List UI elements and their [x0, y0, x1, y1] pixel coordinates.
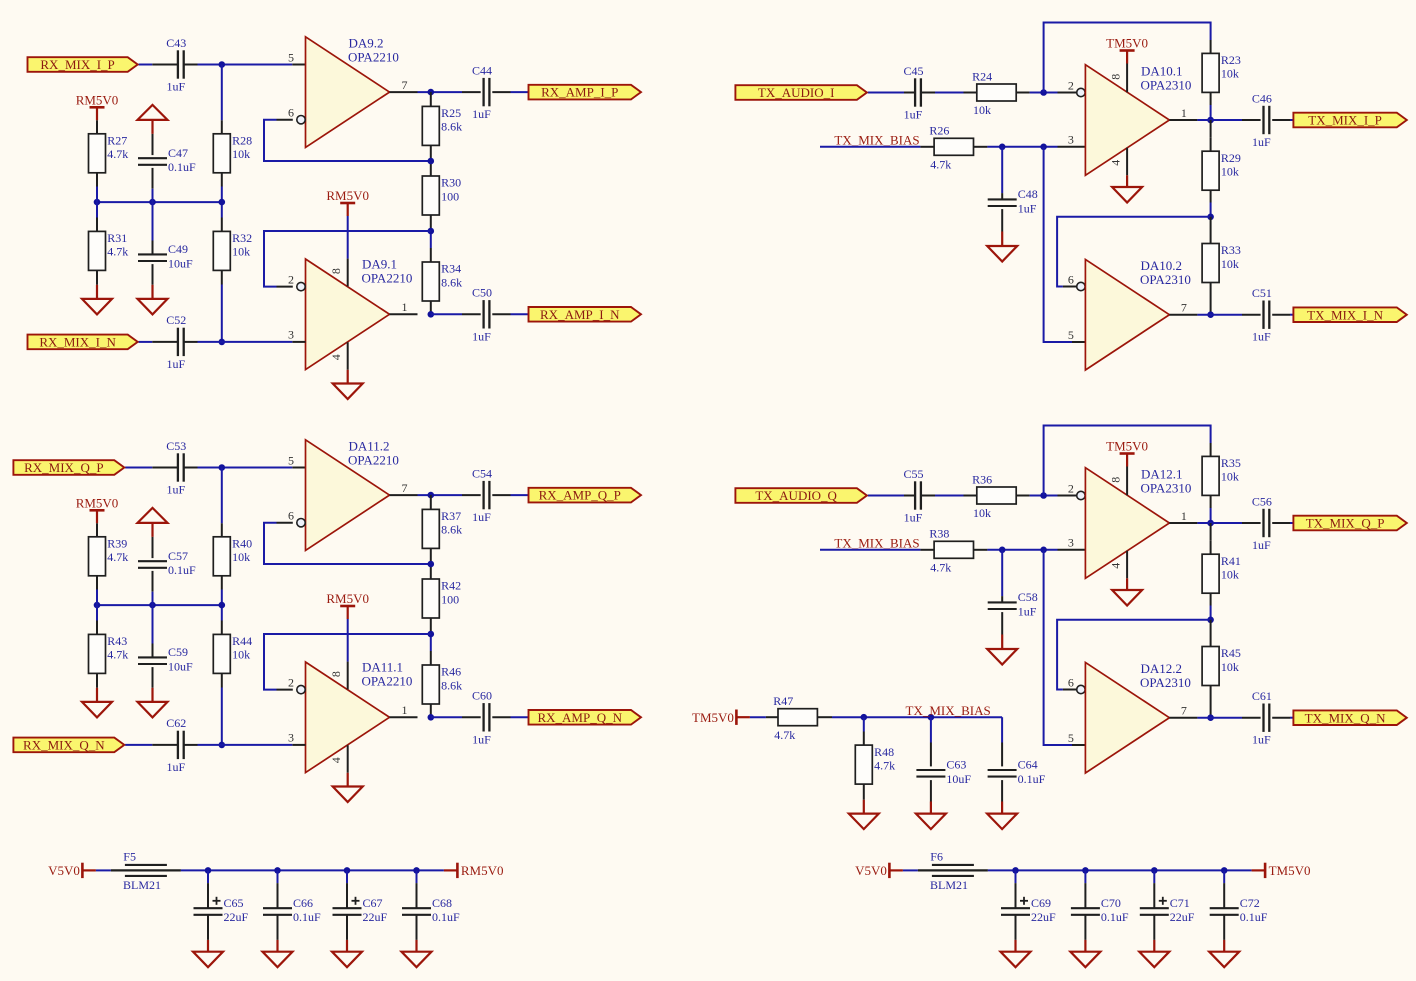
wire — [1223, 940, 1225, 952]
resistor R30 — [422, 176, 439, 215]
wire — [1126, 551, 1128, 579]
svg-text:R40: R40 — [232, 537, 252, 551]
resistor R37 — [422, 509, 439, 548]
svg-text:0.1uF: 0.1uF — [1101, 910, 1129, 924]
wire — [152, 592, 154, 644]
resistor R40 — [213, 537, 230, 576]
svg-text:TM5V0: TM5V0 — [1106, 439, 1148, 454]
resistor R48 — [855, 745, 872, 784]
junction — [1207, 214, 1214, 221]
ground — [82, 299, 112, 315]
svg-text:TX_MIX_BIAS: TX_MIX_BIAS — [834, 536, 919, 551]
wire — [1242, 522, 1261, 524]
wire — [347, 662, 349, 690]
svg-text:RX_AMP_Q_P: RX_AMP_Q_P — [539, 488, 621, 503]
svg-text:RX_AMP_Q_N: RX_AMP_Q_N — [537, 710, 622, 725]
wire — [221, 468, 223, 524]
wire — [1126, 64, 1128, 93]
wire — [277, 522, 293, 524]
svg-text:4: 4 — [329, 757, 343, 763]
wire — [863, 732, 865, 746]
junction — [1040, 547, 1047, 554]
svg-text:4.7k: 4.7k — [774, 728, 795, 742]
wire — [152, 644, 154, 658]
wire — [492, 716, 510, 718]
svg-text:DA11.2: DA11.2 — [349, 438, 390, 453]
wire — [1210, 120, 1212, 138]
wire — [431, 716, 462, 718]
wire — [152, 241, 154, 255]
wire — [1084, 883, 1086, 908]
wire — [207, 870, 209, 883]
resistor R45 — [1202, 647, 1219, 686]
wire — [930, 802, 932, 814]
resistor R24 — [977, 84, 1016, 101]
svg-text:R36: R36 — [972, 472, 992, 486]
junction — [274, 867, 281, 874]
wire — [1001, 232, 1003, 247]
capacitor C66 — [263, 908, 292, 915]
svg-text:0.1uF: 0.1uF — [168, 563, 196, 577]
wire — [1016, 92, 1029, 94]
wire — [152, 571, 154, 592]
wire — [277, 286, 293, 288]
svg-text:C64: C64 — [1018, 758, 1038, 772]
svg-text:C61: C61 — [1252, 689, 1272, 703]
wire — [511, 494, 529, 496]
wire — [277, 883, 279, 908]
svg-text:6: 6 — [1068, 272, 1074, 286]
wire — [1063, 286, 1077, 288]
wire — [390, 91, 418, 93]
wire — [1001, 596, 1003, 602]
wire — [430, 301, 432, 314]
wire — [292, 341, 305, 343]
junction — [428, 158, 435, 165]
svg-text:RM5V0: RM5V0 — [76, 495, 119, 510]
wire — [511, 716, 529, 718]
wire — [1153, 883, 1155, 908]
capacitor C49 — [138, 254, 167, 261]
wire — [988, 869, 1252, 871]
junction — [1082, 867, 1089, 874]
wire — [347, 619, 349, 662]
svg-text:1uF: 1uF — [1252, 733, 1271, 747]
svg-text:RM5V0: RM5V0 — [461, 863, 504, 878]
wire — [277, 119, 293, 121]
svg-text:R23: R23 — [1221, 53, 1241, 67]
wire — [347, 370, 349, 384]
svg-text:4: 4 — [1109, 563, 1123, 569]
svg-text:OPA2310: OPA2310 — [1141, 77, 1192, 92]
wire — [277, 870, 279, 883]
wire — [1072, 744, 1085, 746]
resistor R31 — [89, 231, 106, 270]
capacitor C51 — [1264, 301, 1270, 329]
wire — [347, 773, 349, 787]
wire — [292, 744, 305, 746]
wire — [1030, 92, 1058, 94]
wire — [974, 146, 988, 148]
capacitor C48 — [988, 199, 1017, 206]
wire — [198, 467, 293, 469]
wire — [1210, 523, 1212, 541]
svg-text:DA10.1: DA10.1 — [1141, 63, 1183, 78]
svg-text:C68: C68 — [432, 896, 452, 910]
ground — [333, 787, 363, 803]
svg-text:TM5V0: TM5V0 — [1106, 36, 1148, 51]
svg-text:6: 6 — [1068, 675, 1074, 689]
svg-text:4.7k: 4.7k — [930, 560, 951, 574]
svg-text:5: 5 — [1068, 328, 1074, 342]
ground — [987, 649, 1017, 665]
ground — [1139, 952, 1169, 968]
capacitor C59 — [138, 657, 167, 664]
wire — [462, 494, 481, 496]
wire — [1015, 915, 1017, 940]
wire — [1126, 175, 1128, 187]
svg-text:0.1uF: 0.1uF — [1240, 910, 1268, 924]
capacitor C52 — [178, 328, 184, 356]
svg-text:TM5V0: TM5V0 — [1269, 863, 1311, 878]
ground — [849, 814, 879, 830]
ground — [82, 702, 112, 718]
svg-text:5: 5 — [288, 50, 294, 64]
svg-text:R48: R48 — [874, 745, 894, 759]
capacitor C44 — [484, 78, 490, 106]
svg-text:R43: R43 — [107, 634, 127, 648]
capacitor C69 — [1001, 897, 1030, 915]
svg-text:C66: C66 — [293, 896, 313, 910]
wire — [904, 495, 915, 497]
wire — [184, 64, 198, 66]
power TM5V0 — [692, 710, 750, 725]
svg-text:R33: R33 — [1221, 243, 1241, 257]
junction — [428, 631, 435, 638]
junction — [94, 602, 101, 609]
wire — [1058, 495, 1077, 497]
svg-text:R45: R45 — [1221, 646, 1241, 660]
wire — [430, 495, 432, 509]
wire — [1210, 217, 1212, 244]
junction — [219, 61, 226, 68]
wire — [1169, 522, 1197, 524]
svg-text:100: 100 — [441, 592, 459, 606]
svg-text:2: 2 — [288, 272, 294, 286]
power TM5V0 — [1106, 439, 1148, 467]
resistor R42 — [422, 579, 439, 618]
svg-text:DA10.2: DA10.2 — [1141, 258, 1183, 273]
wire — [207, 883, 209, 908]
svg-text:C69: C69 — [1031, 896, 1051, 910]
wire — [221, 218, 223, 232]
wire — [964, 92, 977, 94]
wire — [96, 621, 98, 635]
svg-text:RX_AMP_I_P: RX_AMP_I_P — [541, 85, 618, 100]
wire — [221, 523, 223, 537]
power RM5V0 — [326, 188, 369, 216]
svg-text:C53: C53 — [166, 439, 186, 453]
svg-text:TX_MIX_BIAS: TX_MIX_BIAS — [906, 703, 991, 718]
ground — [193, 952, 223, 968]
resistor R34 — [422, 262, 439, 301]
svg-text:C43: C43 — [166, 36, 186, 50]
svg-text:1uF: 1uF — [1018, 604, 1037, 618]
junction — [219, 339, 226, 346]
wire — [96, 173, 98, 187]
svg-text:3: 3 — [288, 731, 294, 745]
svg-text:4.7k: 4.7k — [874, 758, 895, 772]
wire — [152, 744, 178, 746]
svg-text:0.1uF: 0.1uF — [432, 910, 460, 924]
wire — [96, 187, 98, 218]
wire — [152, 467, 178, 469]
wire — [1210, 105, 1212, 120]
wire — [1210, 203, 1212, 217]
wire — [346, 883, 348, 908]
wire — [221, 285, 223, 342]
wire — [221, 270, 223, 284]
ferrite bead F6 — [918, 865, 988, 876]
svg-text:OPA2310: OPA2310 — [1140, 675, 1191, 690]
svg-text:RX_MIX_Q_N: RX_MIX_Q_N — [23, 738, 105, 753]
svg-text:1uF: 1uF — [904, 511, 923, 525]
wire — [97, 201, 222, 203]
svg-text:0.1uF: 0.1uF — [168, 160, 196, 174]
wire — [1044, 23, 1211, 93]
svg-text:3: 3 — [1068, 133, 1074, 147]
wire — [1126, 148, 1128, 176]
wire — [1210, 443, 1212, 456]
junction — [861, 714, 868, 721]
svg-text:R29: R29 — [1221, 151, 1241, 165]
svg-text:OPA2310: OPA2310 — [1141, 480, 1192, 495]
wire — [1197, 119, 1242, 121]
svg-text:C51: C51 — [1252, 286, 1272, 300]
power V5V0 — [48, 863, 96, 878]
svg-text:7: 7 — [1181, 704, 1187, 718]
svg-text:R46: R46 — [441, 665, 461, 679]
wire — [416, 883, 418, 908]
capacitor C53 — [178, 453, 184, 481]
wire — [1290, 717, 1293, 719]
wire — [1197, 717, 1242, 719]
wire — [125, 467, 152, 469]
svg-text:C58: C58 — [1018, 590, 1038, 604]
svg-text:C48: C48 — [1018, 187, 1038, 201]
resistor R26 — [934, 138, 973, 155]
ground — [332, 952, 362, 968]
junction — [428, 311, 435, 318]
svg-text:TX_AUDIO_Q: TX_AUDIO_Q — [755, 488, 837, 503]
junction — [1040, 144, 1047, 151]
wire — [139, 64, 153, 66]
wire — [1001, 717, 1003, 742]
svg-text:C65: C65 — [224, 896, 244, 910]
junction — [1207, 117, 1214, 124]
junction — [219, 464, 226, 471]
capacitor C54 — [484, 481, 490, 509]
wire — [430, 248, 432, 262]
power RM5V0 — [76, 495, 119, 523]
capacitor C61 — [1264, 704, 1270, 732]
svg-text:RX_MIX_Q_P: RX_MIX_Q_P — [24, 460, 103, 475]
wire — [1072, 341, 1085, 343]
svg-text:10uF: 10uF — [168, 256, 193, 270]
svg-text:1uF: 1uF — [166, 760, 185, 774]
svg-text:22uF: 22uF — [224, 910, 249, 924]
capacitor C46 — [1264, 106, 1270, 134]
wire — [1030, 495, 1058, 497]
wire — [868, 92, 904, 94]
wire — [264, 634, 431, 690]
svg-text:10k: 10k — [1221, 568, 1239, 582]
wire — [820, 549, 920, 551]
svg-text:10k: 10k — [232, 147, 250, 161]
junction — [428, 89, 435, 96]
capacitor C43 — [178, 50, 184, 78]
power RM5V0 — [76, 92, 119, 120]
wire — [152, 189, 154, 241]
junction — [1207, 617, 1214, 624]
wire — [96, 869, 111, 871]
wire — [151, 285, 153, 299]
svg-text:F5: F5 — [123, 849, 136, 863]
svg-text:2: 2 — [288, 675, 294, 689]
wire — [152, 168, 154, 189]
wire — [221, 576, 223, 590]
junction — [428, 228, 435, 235]
svg-text:1uF: 1uF — [904, 108, 923, 122]
resistor R36 — [977, 487, 1016, 504]
wire — [347, 259, 349, 287]
svg-text:4.7k: 4.7k — [107, 147, 128, 161]
capacitor C71 — [1140, 897, 1169, 915]
junction — [428, 561, 435, 568]
svg-text:C62: C62 — [166, 716, 186, 730]
resistor R33 — [1202, 244, 1219, 283]
wire — [511, 313, 529, 315]
svg-text:4.7k: 4.7k — [930, 157, 951, 171]
power V5V0 — [855, 863, 903, 878]
wire — [511, 91, 529, 93]
wire — [1169, 119, 1197, 121]
svg-text:DA12.1: DA12.1 — [1141, 466, 1183, 481]
svg-text:22uF: 22uF — [1170, 910, 1195, 924]
wire — [347, 342, 349, 370]
wire — [974, 549, 988, 551]
junction — [219, 742, 226, 749]
wire — [1272, 717, 1290, 719]
svg-text:OPA2210: OPA2210 — [362, 674, 413, 689]
junction — [999, 144, 1006, 151]
junction — [1012, 867, 1019, 874]
wire — [221, 65, 223, 121]
junction — [344, 867, 351, 874]
wire — [139, 341, 153, 343]
svg-text:10k: 10k — [232, 550, 250, 564]
junction — [1040, 89, 1047, 96]
svg-text:C67: C67 — [363, 896, 383, 910]
svg-text:TX_MIX_Q_N: TX_MIX_Q_N — [1305, 710, 1386, 725]
svg-text:DA11.1: DA11.1 — [362, 660, 403, 675]
svg-text:4.7k: 4.7k — [107, 245, 128, 259]
junction — [149, 602, 156, 609]
wire — [346, 915, 348, 940]
svg-text:TX_MIX_I_N: TX_MIX_I_N — [1307, 307, 1383, 322]
svg-text:C50: C50 — [472, 286, 492, 300]
power arrow — [138, 105, 168, 134]
junction — [149, 199, 156, 206]
wire — [1084, 870, 1086, 883]
wire — [1126, 467, 1128, 496]
wire — [221, 688, 223, 745]
svg-text:8: 8 — [329, 268, 343, 274]
wire — [868, 495, 904, 497]
wire — [1001, 743, 1003, 767]
svg-text:1uF: 1uF — [1252, 135, 1271, 149]
wire — [920, 549, 934, 551]
wire — [96, 590, 98, 621]
power RM5V0 — [326, 591, 369, 619]
wire — [1084, 940, 1086, 952]
wire — [1016, 495, 1029, 497]
wire — [1210, 138, 1212, 151]
wire — [152, 537, 154, 558]
port RX_MIX_I_N — [28, 335, 138, 350]
resistor R29 — [1202, 151, 1219, 190]
op-amp DA12.1 — [1085, 468, 1169, 579]
ground — [263, 952, 293, 968]
svg-text:R44: R44 — [232, 634, 252, 648]
svg-text:7: 7 — [1181, 301, 1187, 315]
wire — [184, 467, 198, 469]
capacitor C68 — [402, 908, 431, 915]
wire — [921, 495, 935, 497]
svg-text:4: 4 — [329, 354, 343, 360]
resistor R28 — [213, 134, 230, 173]
port TX_MIX_Q_N — [1293, 710, 1406, 725]
svg-text:R32: R32 — [232, 231, 252, 245]
wire — [347, 216, 349, 259]
svg-text:C55: C55 — [903, 467, 923, 481]
svg-text:OPA2310: OPA2310 — [1140, 272, 1191, 287]
ground — [402, 952, 432, 968]
capacitor C58 — [988, 602, 1017, 609]
svg-text:DA9.1: DA9.1 — [362, 257, 397, 272]
capacitor C67 — [333, 897, 362, 915]
wire — [935, 495, 964, 497]
svg-text:2: 2 — [1068, 481, 1074, 495]
svg-text:10k: 10k — [1221, 660, 1239, 674]
svg-text:3: 3 — [288, 328, 294, 342]
wire — [1001, 780, 1003, 801]
wire — [207, 940, 209, 952]
op-amp DA10.1 — [1085, 65, 1169, 176]
wire — [418, 91, 463, 93]
svg-text:8: 8 — [329, 671, 343, 677]
svg-text:DA9.2: DA9.2 — [349, 35, 384, 50]
wire — [863, 784, 865, 800]
wire — [221, 173, 223, 187]
wire — [1063, 689, 1077, 691]
port RX_AMP_Q_P — [529, 488, 642, 503]
wire — [1197, 314, 1242, 316]
wire — [987, 549, 1057, 551]
svg-text:TX_MIX_BIAS: TX_MIX_BIAS — [834, 133, 919, 148]
wire — [430, 651, 432, 665]
svg-text:BLM21: BLM21 — [123, 878, 161, 892]
